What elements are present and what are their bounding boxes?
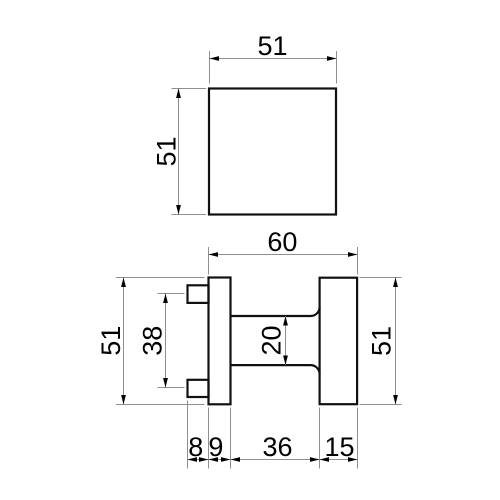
knob head: [320, 278, 358, 405]
svg-text:51: 51: [366, 326, 396, 356]
dimension line: bottom chain: [188, 459, 358, 461]
arrow bottom of side right 51: [393, 395, 398, 405]
svg-text:20: 20: [257, 325, 287, 355]
bottom fixing tab: [188, 380, 209, 397]
arrow left of top 51: [210, 56, 220, 61]
extension line: 60 right: [357, 247, 359, 275]
extension line: left dim 51 top: [172, 88, 207, 90]
extension line: bottom at plate right: [230, 408, 232, 469]
arrow left end (8): [188, 457, 198, 462]
svg-text:51: 51: [96, 326, 126, 356]
rose plate: [209, 278, 231, 405]
arrow bottom of 20: [283, 356, 288, 366]
arrow top of side left 51: [121, 278, 126, 288]
extension line: bottom at tab left: [187, 401, 189, 469]
arrow right end (15): [348, 457, 358, 462]
arrow left of 60: [209, 252, 219, 257]
svg-text:51: 51: [151, 136, 181, 166]
arrow right of top 51: [327, 56, 337, 61]
arrow top of left 51: [176, 89, 181, 99]
extension line: bottom at plate left: [208, 408, 210, 469]
dimension line: 60: [209, 254, 358, 256]
extension line: 38 top: [158, 293, 185, 295]
neck top edge with fillet: [231, 307, 320, 316]
top fixing tab: [188, 285, 209, 303]
extension line: side right 51 bottom: [360, 404, 402, 406]
svg-text:8: 8: [188, 432, 203, 462]
extension line: bottom at head right: [357, 408, 359, 469]
svg-text:15: 15: [324, 432, 354, 462]
dimension line: side left 51: [123, 278, 125, 405]
arrows at 36/15 boundary: [310, 457, 320, 462]
extension line: left dim 51 bottom: [172, 214, 207, 216]
extension line: top dim 51 right: [336, 51, 338, 84]
dimension line: 38: [165, 294, 167, 388]
dimension line: left 51: [178, 89, 180, 215]
svg-text:60: 60: [267, 227, 297, 257]
dimension line: 20: [285, 316, 287, 365]
extension line: side left 51 top: [116, 277, 205, 279]
svg-text:51: 51: [257, 31, 287, 61]
arrows at 9/36 boundary: [221, 457, 231, 462]
dimension line: side right 51: [395, 278, 397, 405]
extension line: top dim 51 left: [209, 51, 211, 84]
arrow bottom of side left 51: [121, 395, 126, 405]
extension line: 38 bottom: [158, 387, 185, 389]
arrow top of 38: [163, 294, 168, 304]
arrow top of side right 51: [393, 278, 398, 288]
arrow right of 60: [348, 252, 358, 257]
arrow bottom of 38: [163, 378, 168, 388]
svg-text:36: 36: [262, 432, 292, 462]
extension line: bottom at head left: [319, 408, 321, 469]
svg-text:9: 9: [208, 432, 223, 462]
extension line: side right 51 top: [360, 277, 402, 279]
knob face square (top view): [209, 89, 336, 215]
svg-text:38: 38: [137, 326, 167, 356]
extension line: 60 left: [208, 247, 210, 275]
arrow bottom of left 51: [176, 205, 181, 215]
arrow top of 20: [283, 316, 288, 326]
extension line: side left 51 bottom: [116, 404, 205, 406]
arrows at 8/9 boundary: [199, 457, 209, 462]
neck bottom edge with fillet: [231, 365, 320, 374]
dimension line: top 51: [210, 58, 337, 60]
